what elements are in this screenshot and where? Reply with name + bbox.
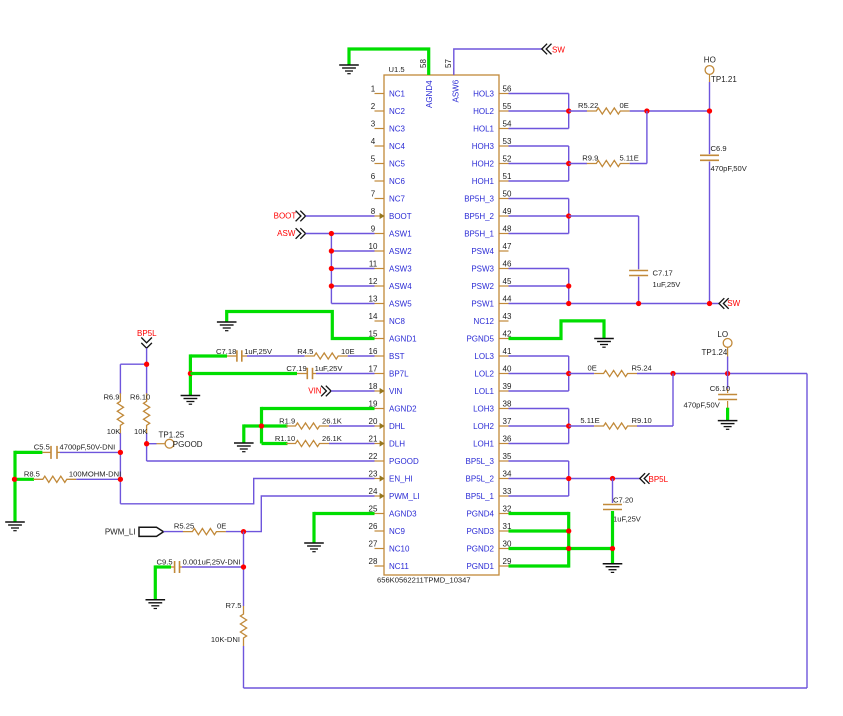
svg-text:AGND1: AGND1 [389,335,417,344]
junction R5.22/R9.9 [644,108,649,113]
pin 12 ASW4 [369,277,413,291]
svg-text:28: 28 [369,557,378,566]
svg-text:EN_HI: EN_HI [389,475,413,484]
resistor R8.5 100MOHM-DNI [15,469,122,482]
svg-text:52: 52 [503,155,512,164]
svg-text:45: 45 [503,277,512,286]
wire C7.19 to pin 17 [316,373,375,375]
svg-text:C7.20: C7.20 [613,496,633,505]
svg-text:26.1K: 26.1K [322,434,342,443]
pin 52 HOH2 [472,155,512,169]
svg-text:24: 24 [369,487,378,496]
capacitor C7.19 [286,364,343,379]
pin 30 PGND2 [466,540,512,554]
svg-text:BST: BST [389,352,405,361]
svg-text:11: 11 [369,260,378,269]
svg-text:PSW1: PSW1 [471,300,494,309]
pin 7 NC7 [371,190,406,204]
pin 49 BP5H_2 [464,207,512,221]
svg-text:C9.5: C9.5 [157,558,173,567]
junction C5.5/R6.9 [118,450,123,455]
wire BOOT to pin 8 [306,215,375,217]
wire C7.20 green to PGND and ground [611,511,614,564]
pin 24 PWM_LI [369,487,420,501]
pin 1 NC1 [371,85,406,99]
svg-text:PGND1: PGND1 [466,562,494,571]
junction C6.9 bottom [707,301,712,306]
resistor R6.10 10K [130,392,151,436]
wire PGND5 green to ground [509,321,605,339]
svg-text:5.11E: 5.11E [580,416,599,425]
svg-text:ASW2: ASW2 [389,247,412,256]
svg-text:HOL2: HOL2 [473,107,494,116]
ground BST/BP7L decoupling [181,396,201,405]
wire C9.5 green to ground [155,565,171,599]
port SW (right) [719,298,741,309]
svg-text:100MOHM-DNI: 100MOHM-DNI [69,469,121,478]
svg-text:41: 41 [503,347,512,356]
port SW (top) [542,44,566,55]
svg-text:23: 23 [369,470,378,479]
wire PGND green bus pins 29-32 [509,512,613,568]
svg-text:PGOOD: PGOOD [389,457,419,466]
svg-text:43: 43 [503,312,512,321]
svg-text:R8.5: R8.5 [24,469,40,478]
svg-text:16: 16 [369,347,378,356]
svg-text:VIN: VIN [308,387,322,396]
ground AGND3 [304,543,324,552]
svg-text:5.11E: 5.11E [620,154,639,163]
junction BP5L_2 bus [566,476,571,481]
junction BP7L green [188,371,193,376]
svg-text:BP5L_3: BP5L_3 [466,457,495,466]
capacitor C7.20 1uF,25V [603,479,642,524]
resistor R9.10 5.11E [569,416,652,429]
svg-text:C6.10: C6.10 [710,384,730,393]
svg-text:34: 34 [503,470,512,479]
wire R6.10 to TP1.25 and pin 22 [147,444,375,461]
svg-text:56: 56 [503,85,512,94]
svg-text:17: 17 [369,365,378,374]
port VIN [308,386,331,397]
svg-text:TP1.24: TP1.24 [702,348,728,357]
svg-text:HOL1: HOL1 [473,125,494,134]
svg-text:1uF,25V: 1uF,25V [653,280,682,289]
pin 38 LOH3 [473,400,512,414]
svg-text:R1.9: R1.9 [279,416,295,425]
svg-text:36: 36 [503,435,512,444]
svg-text:SW: SW [727,299,740,308]
pin 37 LOH2 [473,417,512,431]
pin 36 LOH1 [473,435,512,449]
pin 5 NC5 [371,155,406,169]
wire VIN to pin 18 [331,390,374,392]
svg-text:NC8: NC8 [389,317,406,326]
svg-text:LOH3: LOH3 [473,405,494,414]
svg-text:3: 3 [371,120,376,129]
svg-text:NC2: NC2 [389,107,406,116]
svg-text:2: 2 [371,102,376,111]
resistor R7.5 10K-DNI [211,601,247,646]
junction LO node [725,371,730,376]
pin 23 EN_HI [369,470,413,484]
svg-text:0E: 0E [588,364,597,373]
pin 15 AGND1 [369,330,418,344]
pin 31 PGND3 [466,522,512,536]
pin 21 DLH [369,435,406,449]
junction ASW4 [329,283,334,288]
svg-text:BP7L: BP7L [389,370,409,379]
svg-text:1uF,25V: 1uF,25V [244,347,273,356]
svg-text:AGND2: AGND2 [389,405,417,414]
svg-text:NC11: NC11 [389,562,409,571]
svg-text:33: 33 [503,487,512,496]
svg-text:PSW4: PSW4 [471,247,494,256]
svg-text:AGND3: AGND3 [389,510,417,519]
pin 41 LOL3 [474,347,512,361]
svg-text:C7.17: C7.17 [653,268,673,277]
junction C7.20 bottom [610,546,615,551]
junction BP5L split [144,362,149,367]
ground C5.5/R8.5 [5,522,25,531]
svg-text:PSW2: PSW2 [471,282,494,291]
pin 42 PGND5 [466,330,512,344]
junction ASW3 [329,266,334,271]
pin 53 HOH3 [472,137,512,151]
wire BP5L bus pins 33-35 [509,461,640,496]
port PWM_LI (sheet entry) [105,527,164,536]
svg-text:HOH2: HOH2 [472,160,495,169]
wire PWM_LI to R5.25 [164,531,184,533]
capacitor C5.5 4700pF,50V-DNI [34,443,115,459]
pin 58 AGND4 (top) [419,59,434,108]
junction PGND3 bus [566,528,571,533]
wire C7.18 to R4.5 [247,355,305,357]
svg-text:470pF,50V: 470pF,50V [711,164,748,173]
pin 2 NC2 [371,102,406,116]
wire C6.10 green to ground [726,408,729,421]
port BOOT [274,211,306,222]
svg-text:21: 21 [369,435,378,444]
pin 40 LOL2 [474,365,512,379]
wire C5.5 left green [15,451,42,522]
svg-text:40: 40 [503,365,512,374]
svg-text:7: 7 [371,190,376,199]
port ASW [277,228,305,239]
svg-text:PGND4: PGND4 [466,510,494,519]
ground C9.5 [146,600,166,609]
resistor R1.10 26.1K [275,434,342,447]
svg-text:HOH1: HOH1 [472,177,495,186]
svg-text:U1.5: U1.5 [389,65,405,74]
svg-text:10E: 10E [341,347,355,356]
resistor R5.24 0E [569,364,652,377]
svg-text:ASW3: ASW3 [389,265,412,274]
svg-text:C5.5: C5.5 [34,443,50,452]
svg-text:18: 18 [369,382,378,391]
junction C9.5 node [241,564,246,569]
svg-text:NC3: NC3 [389,125,406,134]
svg-text:51: 51 [503,172,512,181]
svg-text:LOL3: LOL3 [474,352,494,361]
junction BP5H_2 bus [566,213,571,218]
test point TP1.21 HO [704,55,738,84]
pin 29 PGND1 [466,557,512,571]
junction PSW1 bus [566,301,571,306]
capacitor C9.5 0.001uF,25V-DNI [157,558,241,573]
svg-text:39: 39 [503,382,512,391]
pin 39 LOL1 [474,382,512,396]
wire BP5H_2 to C7.17 [569,216,639,304]
resistor R9.9 5.11E [569,154,639,167]
pin 56 HOL3 [473,85,512,99]
svg-text:14: 14 [369,312,378,321]
resistor R5.25 0E [174,522,226,535]
svg-text:ASW1: ASW1 [389,230,412,239]
ground C7.20 [603,564,623,573]
svg-text:ASW6: ASW6 [451,79,460,102]
pin 25 AGND3 [369,505,418,519]
junction LOH2 bus [566,423,571,428]
svg-text:HOL3: HOL3 [473,90,494,99]
wire R5.22 to HO node [630,110,710,112]
svg-text:PGND5: PGND5 [466,335,494,344]
wire LOH bus pins 36-38 [509,409,569,444]
pin 3 NC3 [371,120,406,134]
pin 20 DHL [369,417,406,431]
junction PSW2 bus [566,283,571,288]
pin 46 PSW3 [471,260,512,274]
resistor R1.9 26.1K [279,416,342,429]
svg-text:54: 54 [503,120,512,129]
svg-text:R4.5: R4.5 [297,347,313,356]
wire R9.10 up to LOL2 line [637,374,673,427]
svg-text:R5.24: R5.24 [632,364,652,373]
svg-text:NC6: NC6 [389,177,406,186]
svg-text:55: 55 [503,102,512,111]
svg-text:470pF,50V: 470pF,50V [684,401,721,410]
svg-text:NC1: NC1 [389,90,406,99]
wire HOH bus pins 51-53 [509,146,569,181]
junction ASW1 [329,231,334,236]
junction HOL2 bus [566,108,571,113]
pin 33 BP5L_1 [466,487,512,501]
wire HOL bus pins 54-56 [509,94,569,129]
svg-text:13: 13 [369,295,378,304]
ground AGND1 [217,322,237,331]
svg-text:BP5H_3: BP5H_3 [464,195,494,204]
svg-text:37: 37 [503,417,512,426]
junction ASW2 [329,248,334,253]
svg-text:0.001uF,25V-DNI: 0.001uF,25V-DNI [183,558,241,567]
pin 4 NC4 [371,137,406,151]
svg-text:53: 53 [503,137,512,146]
wire TP1.21 down through C6.9 node to SW line [709,74,711,303]
svg-text:PSW3: PSW3 [471,265,494,274]
wire EN_HI from R6.9 branch to pin 23 [120,479,374,504]
svg-text:NC4: NC4 [389,142,406,151]
resistor R6.9 10K [103,392,124,436]
svg-text:PWM_LI: PWM_LI [389,492,420,501]
op-amp/IC U1.5 body [377,65,499,585]
pin 54 HOL1 [473,120,512,134]
junction R8.5 left [12,477,17,482]
pin 32 PGND4 [466,505,512,519]
wire R9.9 up to R5.22 output [630,111,647,164]
svg-text:10K: 10K [107,427,121,436]
svg-text:26: 26 [369,522,378,531]
svg-text:NC9: NC9 [389,527,406,536]
svg-text:DHL: DHL [389,422,406,431]
svg-text:HO: HO [704,55,716,64]
svg-text:0E: 0E [620,101,629,110]
wire AGND4 to ground (green) [349,49,429,75]
wire AGND1 to ground (green) [227,312,375,339]
svg-text:4700pF,50V-DNI: 4700pF,50V-DNI [60,443,116,452]
svg-text:BP5H_2: BP5H_2 [464,212,494,221]
wire R5.24 to LO node and right rail [637,374,807,689]
svg-text:656K0562211TPMD_10347: 656K0562211TPMD_10347 [377,576,471,585]
wire AGND2/DHL/DLH green net [244,407,375,444]
svg-text:BOOT: BOOT [274,212,297,221]
svg-text:DLH: DLH [389,440,405,449]
svg-text:PWM_LI: PWM_LI [105,527,136,536]
svg-text:BP5L_2: BP5L_2 [466,475,495,484]
svg-text:LOL2: LOL2 [474,370,494,379]
pin 9 ASW1 [371,225,412,239]
svg-text:LOH1: LOH1 [473,440,494,449]
wire R5.25 to pin 24 [226,496,375,532]
svg-text:0E: 0E [217,522,226,531]
svg-text:NC7: NC7 [389,195,406,204]
wire TP1.24 to LO node [727,347,729,373]
svg-text:LO: LO [717,330,728,339]
svg-text:VIN: VIN [389,387,403,396]
svg-text:TP1.21: TP1.21 [711,75,737,84]
svg-text:C7.18: C7.18 [216,347,236,356]
junction HO node [707,108,712,113]
svg-text:6: 6 [371,172,376,181]
svg-text:1uF,25V: 1uF,25V [613,515,642,524]
svg-text:LOL1: LOL1 [474,387,494,396]
svg-text:PGND3: PGND3 [466,527,494,536]
svg-text:10: 10 [369,242,378,251]
svg-text:8: 8 [371,207,376,216]
svg-text:50: 50 [503,190,512,199]
pin 27 NC10 [369,540,410,554]
wire LOL bus pins 39-41 [509,356,569,391]
pin 57 ASW6 (top) [444,59,460,103]
wire ASW to pins 9-13 [306,234,375,304]
junction R5.25 output [241,529,246,534]
test point TP1.24 LO [702,330,732,357]
pin 43 NC12 [474,312,512,326]
svg-text:20: 20 [369,417,378,426]
svg-text:22: 22 [369,452,378,461]
svg-text:5: 5 [371,155,376,164]
svg-text:1: 1 [371,85,376,94]
svg-text:R5.25: R5.25 [174,522,194,531]
svg-text:ASW: ASW [277,229,296,238]
port BP5L (right) [640,473,669,484]
svg-text:C6.9: C6.9 [711,144,727,153]
svg-text:PGND2: PGND2 [466,545,494,554]
pin 6 NC6 [371,172,406,186]
pin 34 BP5L_2 [466,470,512,484]
junction PGND2 bus [566,546,571,551]
svg-text:57: 57 [444,59,453,68]
svg-text:10K-DNI: 10K-DNI [211,635,240,644]
pin 26 NC9 [369,522,406,536]
svg-text:38: 38 [503,400,512,409]
pin 48 BP5H_1 [464,225,512,239]
capacitor C7.18 [216,347,273,362]
svg-text:R9.9: R9.9 [582,154,598,163]
svg-text:35: 35 [503,452,512,461]
wire C5.5 to R6.9 node [60,451,120,453]
pin 8 BOOT [371,207,412,221]
svg-text:ASW5: ASW5 [389,300,412,309]
junction R8.5 right [118,477,123,482]
svg-text:NC12: NC12 [474,317,495,326]
pin 51 HOH1 [472,172,512,186]
wire BP7L green segment [190,372,297,375]
junction R9.10 tap [670,371,675,376]
junction AGND2 net [259,423,264,428]
pin 16 BST [369,347,405,361]
junction TP1.25 node [144,441,149,446]
svg-text:BP5L_1: BP5L_1 [466,492,495,501]
svg-text:12: 12 [369,277,378,286]
svg-text:LOH2: LOH2 [473,422,494,431]
svg-text:SW: SW [552,45,565,54]
pin 13 ASW5 [369,295,413,309]
svg-text:44: 44 [503,295,512,304]
wire BP5L to R6.9/R6.10 [120,348,146,504]
svg-text:47: 47 [503,242,512,251]
svg-text:TP1.25: TP1.25 [159,430,185,439]
svg-text:R6.10: R6.10 [130,392,150,401]
capacitor C6.10 470pF,50V [684,374,738,410]
junction HOH2 bus [566,161,571,166]
svg-text:49: 49 [503,207,512,216]
wire C9.5 to PWM node [182,566,244,568]
wire R1.10 to pin 21 [329,443,375,445]
junction C7.20 top [610,476,615,481]
test point TP1.25 PGOOD [159,430,203,448]
wire R8.5 to R6.9 node [76,478,120,480]
svg-text:1uF,25V: 1uF,25V [315,364,344,373]
capacitor C6.9 470pF,50V [700,144,748,173]
svg-text:27: 27 [369,540,378,549]
ground AGND2 net [234,443,254,452]
pin 50 BP5H_3 [464,190,512,204]
svg-text:PGOOD: PGOOD [173,440,203,449]
svg-text:BP5H_1: BP5H_1 [464,230,494,239]
capacitor C7.17 1uF,25V [629,268,681,289]
svg-text:R7.5: R7.5 [225,601,241,610]
svg-text:26.1K: 26.1K [322,416,342,425]
svg-text:R6.9: R6.9 [103,392,119,401]
pin 17 BP7L [369,365,410,379]
pin 14 NC8 [369,312,406,326]
wire R1.9 to pin 20 [329,425,375,427]
svg-text:BP5L: BP5L [649,475,669,484]
svg-text:R1.10: R1.10 [275,434,295,443]
pin 22 PGOOD [369,452,419,466]
pin 55 HOL2 [473,102,512,116]
svg-text:NC5: NC5 [389,160,406,169]
